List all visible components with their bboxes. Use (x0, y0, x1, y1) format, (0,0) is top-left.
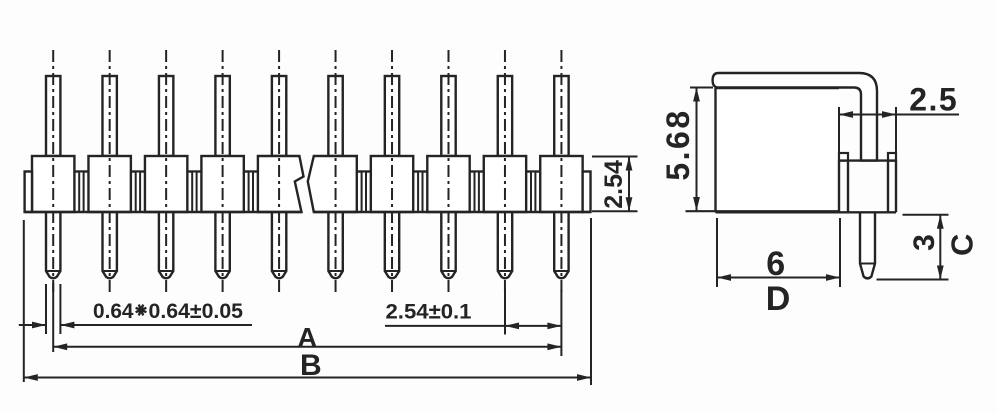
extension line pin 1 center (52, 283, 54, 352)
pin 2 tip chamfer line (102, 270, 116, 272)
side-view insulator wall with top tabs (839, 153, 848, 161)
pin 7 top post (385, 76, 399, 156)
strip bottom edge left of break (25, 211, 302, 213)
pin 1 bottom tail (46, 212, 60, 278)
body block 7 (371, 156, 413, 212)
side-view spacer body 6 x 5.68 (716, 88, 840, 212)
pin 6 centerline (335, 50, 337, 296)
pin 1 centerline (52, 50, 54, 296)
pin 3 tip chamfer line (159, 270, 173, 272)
strip bottom edge right of break (314, 211, 591, 213)
arrow 6 left (717, 274, 731, 281)
extension line body top (592, 156, 638, 158)
extension line seating right (903, 214, 949, 216)
svg-text:B: B (300, 349, 322, 382)
pin 10 tip chamfer line (554, 270, 568, 272)
extension line pin1 right edge (59, 284, 61, 334)
svg-text:3: 3 (908, 234, 941, 251)
left end cap of strip (25, 172, 32, 213)
pin 4 bottom tail (215, 212, 229, 278)
arrow 5.68 bottom (693, 197, 700, 211)
body block 8 (427, 156, 469, 212)
insulator bottom line (839, 211, 896, 213)
extension line pin 10 center (560, 290, 562, 356)
dim 0.64 right leader (60, 324, 252, 326)
web between body 8 and body 9 (470, 170, 484, 172)
pin 1 tip chamfer line (46, 270, 60, 272)
svg-text:2.5: 2.5 (909, 82, 958, 118)
pin 7 centerline (391, 50, 393, 296)
pin 5 tip chamfer line (272, 270, 286, 272)
extension line body right wall up (895, 107, 897, 153)
pin 1 top post (46, 76, 60, 156)
arrow 3 bottom (937, 266, 944, 280)
pin 4 centerline (222, 50, 224, 296)
seating plane / 5.68 bottom extension line (686, 210, 840, 212)
extension line pin 9 center (504, 290, 506, 335)
extension line body bottom (592, 210, 638, 212)
pin 2 top post (102, 76, 116, 156)
pin 8 centerline (447, 50, 449, 296)
pin 10 centerline (560, 50, 562, 296)
arrow 2.5 left (839, 111, 853, 118)
pin 6 tip chamfer line (328, 270, 342, 272)
dim 2.54±0.1 line (385, 325, 561, 327)
insulator inner left wall (847, 161, 849, 213)
pin 3 bottom tail (159, 212, 173, 278)
dim A line (53, 346, 561, 348)
pin 3 top post (159, 76, 173, 156)
pin 4 tip chamfer line (215, 270, 229, 272)
pin 5 centerline (278, 50, 280, 296)
pin 4 top post (215, 76, 229, 156)
extension line body left wall up (838, 107, 840, 153)
right end cap of strip (583, 172, 591, 213)
dim 6 line (717, 277, 840, 279)
body block 9 (484, 156, 526, 212)
side-view pin chamfer line (860, 263, 875, 265)
pin 5 top post (272, 76, 286, 156)
body block 2 (88, 156, 130, 212)
right-angle bent pin (713, 73, 877, 161)
svg-text:D: D (766, 280, 791, 318)
arrow A left (53, 343, 67, 350)
svg-text:2.54±0.1: 2.54±0.1 (386, 301, 472, 324)
svg-text:6: 6 (766, 245, 785, 283)
pin 7 bottom tail (385, 212, 399, 278)
pin 5 bottom tail (272, 212, 286, 278)
insulator top surface line (839, 159, 896, 161)
arrow B right (577, 374, 591, 381)
body block 4 (201, 156, 243, 212)
dim 5.68 line (696, 88, 698, 212)
arrow at pin1 left edge (32, 322, 46, 329)
svg-text:C: C (945, 234, 980, 256)
pin 9 top post (498, 76, 512, 156)
dim 3 line (939, 215, 941, 280)
pin 2 centerline (109, 50, 111, 296)
web between body 3 and body 4 (187, 170, 201, 172)
pin 8 top post (441, 76, 455, 156)
web between body 6 and body 7 (357, 170, 371, 172)
arrow A right (547, 343, 561, 350)
arrow body bottom (626, 197, 633, 211)
pin 2 bottom tail (103, 212, 117, 278)
svg-text:2.54: 2.54 (600, 160, 628, 209)
pin 8 tip chamfer line (441, 270, 455, 272)
body block 6 (right of break, notched edge) (308, 156, 357, 212)
svg-text:0.64±0.05: 0.64±0.05 (149, 300, 244, 323)
side-view pin bottom tail (860, 212, 875, 278)
insulator inner right wall (887, 161, 889, 213)
pin 8 bottom tail (441, 212, 455, 278)
extension line strip left end (23, 220, 25, 382)
arrow 2.5 right (882, 111, 896, 118)
dim 0.64 left leader (19, 324, 46, 326)
arrow at pin 9 center (505, 323, 519, 330)
svg-text:0.64: 0.64 (93, 300, 134, 323)
pin 10 bottom tail (554, 212, 568, 278)
insulator outer left wall (838, 161, 840, 213)
arrow 3 top (937, 215, 944, 229)
web between body 7 and body 8 (413, 170, 427, 172)
arrow body top (626, 157, 633, 171)
web between body 2 and body 3 (131, 170, 145, 172)
web between body 1 and body 2 (74, 170, 88, 172)
arrow at pin 10 center (547, 323, 561, 330)
asterisk star in 0.64*0.64 label (136, 305, 147, 316)
dim 2.5 line (839, 114, 959, 116)
pin 6 top post (328, 76, 342, 156)
arrow B left (24, 374, 38, 381)
dim 2.54 vertical line (628, 157, 630, 212)
extension line pin top left (690, 87, 713, 89)
pin 9 centerline (504, 50, 506, 296)
dim B line (24, 377, 591, 379)
body block 10 (540, 156, 582, 212)
svg-text:A: A (297, 322, 317, 352)
pin 7 tip chamfer line (385, 270, 399, 272)
pin 3 centerline (165, 50, 167, 296)
pin 10 top post (554, 76, 568, 156)
arrow 5.68 top (693, 88, 700, 102)
insulator outer right wall (895, 161, 897, 213)
body block 5 (left of break, jagged edge) (258, 156, 304, 212)
pin 9 bottom tail (498, 212, 512, 278)
pin 9 tip chamfer line (498, 270, 512, 272)
extension line box right down (839, 218, 841, 287)
arrow at pin1 right edge (60, 322, 74, 329)
web between body 9 and body 10 (526, 170, 540, 172)
extension line box left down (716, 218, 718, 287)
web between body 4 and body 5 (244, 170, 258, 172)
arrow 6 right (826, 274, 840, 281)
body block 3 (145, 156, 187, 212)
body block 1 (32, 156, 74, 212)
extension line strip right end (590, 218, 592, 385)
extension line pin tip (877, 279, 949, 281)
pin 6 bottom tail (328, 212, 342, 278)
svg-text:5.68: 5.68 (660, 108, 696, 180)
extension line pin1 left edge (45, 284, 47, 334)
